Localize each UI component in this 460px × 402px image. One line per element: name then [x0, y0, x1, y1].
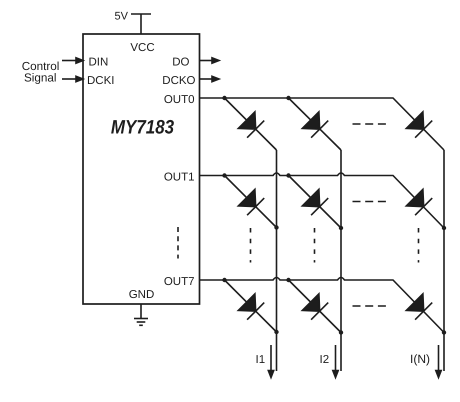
svg-text:DO: DO — [172, 57, 189, 69]
pin label OUT0 — [164, 94, 195, 106]
LED row0 col1 — [238, 112, 264, 138]
label I(N) — [410, 352, 430, 366]
wire column 1 vertical — [276, 150, 278, 371]
label I1 — [256, 354, 266, 366]
LED row7 col1 — [238, 294, 264, 320]
node row1 colN join — [442, 226, 446, 230]
LED row7 col2 — [302, 294, 328, 320]
LED row1 col2 — [302, 189, 328, 215]
dashed continuation column 1 rows — [250, 228, 252, 263]
svg-text:DCKI: DCKI — [87, 75, 114, 87]
dashed continuation row7 columns — [353, 305, 387, 307]
dashed continuation row0 columns — [353, 123, 387, 125]
pin label GND — [129, 289, 155, 301]
dashed continuation column N rows — [418, 228, 420, 263]
current arrow I(N) — [436, 345, 441, 378]
wire diagonal row7 col2 — [289, 280, 342, 333]
pin label OUT7 — [164, 276, 195, 288]
LED row0 colN — [406, 112, 432, 138]
LED row1 colN — [406, 189, 432, 215]
pin label DO — [172, 57, 189, 69]
pin label DCKI — [87, 75, 114, 87]
dashed continuation inside IC between OUT1 and OUT7 — [177, 227, 179, 259]
label 5V — [115, 11, 129, 23]
node row7 col2 tap — [286, 278, 290, 282]
svg-text:GND: GND — [129, 289, 155, 301]
part name MY7183 — [111, 117, 174, 139]
wire DCKO output arrow — [200, 76, 220, 81]
pin label VCC — [130, 42, 154, 54]
svg-text:5V: 5V — [115, 11, 129, 23]
power symbol 5V rail — [131, 13, 151, 15]
node row1 col1 tap — [222, 173, 226, 177]
wire OUT0 row with bend to column N — [200, 98, 445, 150]
label Control Signal — [22, 60, 60, 85]
wire column N vertical — [443, 150, 445, 371]
svg-text:OUT1: OUT1 — [164, 172, 195, 184]
svg-text:MY7183: MY7183 — [111, 117, 174, 139]
LED row0 col2 — [302, 112, 328, 138]
current arrow I2 — [333, 345, 338, 378]
wire DIN input arrow — [62, 58, 83, 63]
wire column 2 vertical — [340, 150, 342, 371]
svg-text:DIN: DIN — [89, 57, 109, 69]
dashed continuation column 2 rows — [314, 228, 316, 263]
svg-text:I2: I2 — [320, 354, 330, 366]
svg-text:DCKO: DCKO — [162, 75, 195, 87]
wire DO output arrow — [200, 58, 220, 63]
svg-text:VCC: VCC — [130, 42, 154, 54]
LED row1 col1 — [238, 189, 264, 215]
wire OUT7 row with hops over column 1 and 2, bend to column N — [200, 278, 445, 333]
svg-text:I1: I1 — [256, 354, 266, 366]
node row7 col1 tap — [222, 278, 226, 282]
node row7 colN join — [442, 330, 446, 334]
node row0 col1 — [222, 96, 226, 100]
dashed continuation row1 columns — [353, 201, 387, 203]
node row0 col2 — [286, 96, 290, 100]
wire diagonal row0 col2 — [289, 98, 342, 150]
node row1 col2 tap — [286, 173, 290, 177]
current arrow I1 — [268, 345, 273, 378]
wire diagonal row0 col1 — [225, 98, 277, 150]
node row1 col2 join — [339, 226, 343, 230]
pin label DIN — [89, 57, 109, 69]
LED row7 colN — [406, 294, 432, 320]
wire diagonal row1 col2 — [289, 176, 342, 229]
wire diagonal row7 col1 — [225, 280, 277, 332]
svg-text:Signal: Signal — [24, 72, 57, 85]
svg-text:OUT7: OUT7 — [164, 276, 195, 288]
node row1 col1 join — [274, 225, 278, 229]
svg-text:OUT0: OUT0 — [164, 94, 195, 106]
wire diagonal row1 col1 — [225, 176, 277, 228]
wire OUT1 row with hops over column 1 and 2, bend to column N — [200, 173, 445, 228]
IC U1 MY7183 box — [83, 34, 200, 304]
node row7 col1 join — [274, 330, 278, 334]
label I2 — [320, 354, 330, 366]
ground symbol — [134, 304, 148, 325]
node row7 col2 join — [339, 330, 343, 334]
pin label DCKO — [162, 75, 195, 87]
pin label OUT1 — [164, 172, 195, 184]
svg-text:I(N): I(N) — [410, 352, 430, 366]
wire VCC stem — [140, 14, 142, 34]
wire DCKI input arrow — [62, 76, 83, 81]
